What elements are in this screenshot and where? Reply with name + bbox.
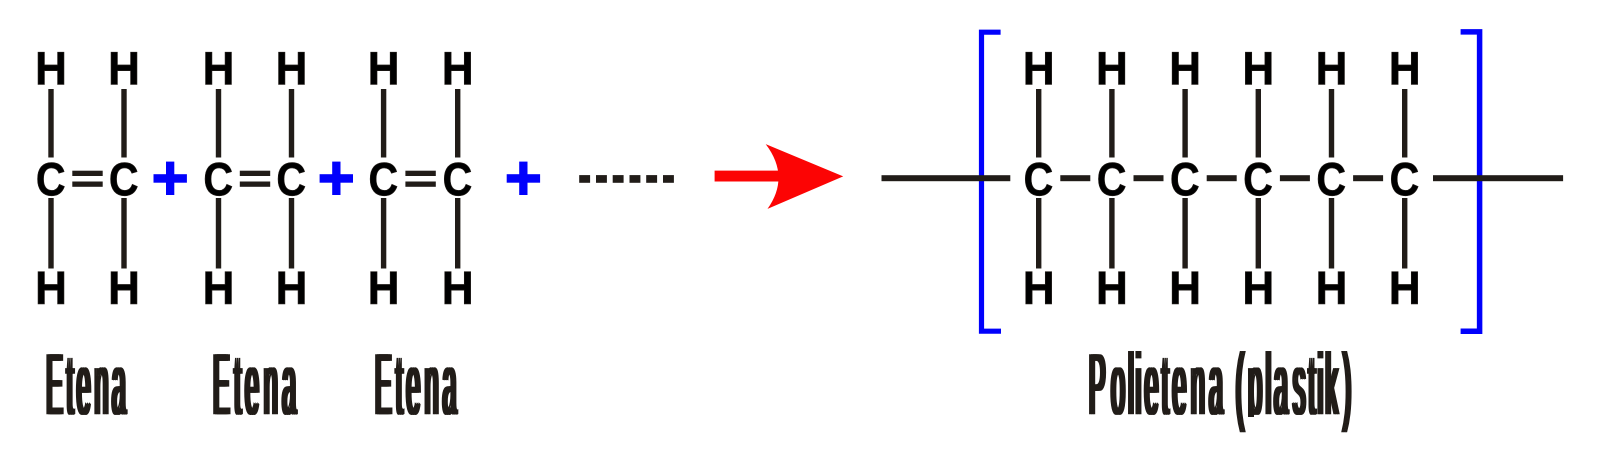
polymer: top bond 5 [1329,89,1334,158]
polymer: C2-C3 bond [1134,175,1164,181]
molecule 2: bond C2-H top [289,89,294,158]
molecule 1: C=C double bond [72,171,102,176]
molecule 1: C1 [38,163,65,196]
ellipsis dashes [579,175,674,183]
molecule 1: bond C1-H top [48,89,53,158]
molecule 2: top-right H [279,52,305,84]
molecule 1: bond C1-H bottom [48,198,53,269]
polymer: top bond 4 [1256,89,1261,158]
polymer: C5-C6 bond [1353,175,1383,181]
label "Etena" 1 [46,354,127,415]
reaction arrow (red) [715,144,844,209]
molecule 3: C=C double bond [405,171,435,176]
polymer: bottom H 6 [1392,272,1418,304]
molecule 2: C=C double bond [240,171,270,176]
polymer: exit line [1433,175,1563,181]
molecule 3: bond C1-H bottom [381,198,386,269]
molecule 3: bond C1-H top [381,89,386,158]
plus sign 1 (blue) [154,162,187,195]
polymer: C5 [1318,163,1345,196]
plus sign 3 (blue) [507,162,540,195]
polymer: bottom bond 3 [1182,198,1187,269]
label "Etena" 3 [375,354,458,415]
polymer: C4 [1245,163,1272,196]
molecule 3: C2 [444,163,471,196]
polymer: bottom H 3 [1172,272,1198,304]
molecule 2: top-left H [206,52,232,84]
polymer: bottom bond 4 [1256,198,1261,269]
molecule 1: bond C2-H top [121,89,126,158]
polymer: C3-C4 bond [1207,175,1237,181]
polymer: top bond 1 [1036,89,1041,158]
polymer: C1 [1025,163,1052,196]
polymer: top H 2 [1099,52,1125,84]
polymer: bottom bond 2 [1109,198,1114,269]
molecule 1: bond C2-H bottom [121,198,126,269]
molecule 2: C1 [205,163,232,196]
polymer: C3 [1172,163,1199,196]
molecule 3: bottom-right H [445,272,471,304]
label "Polietena (plastik)" [1089,351,1352,432]
polymer: bottom bond 6 [1402,198,1407,269]
polymer: C4-C5 bond [1280,175,1310,181]
molecule 3: bond C2-H bottom [455,198,460,269]
polymer: bottom H 5 [1319,272,1345,304]
molecule 2: bottom-left H [206,272,232,304]
polymer: top H 3 [1172,52,1198,84]
molecule 3: C1 [370,163,397,196]
plus sign 2 (blue) [320,162,353,195]
polymer: bottom bond 1 [1036,198,1041,269]
molecule 1: bottom-right H [111,272,137,304]
polymer: top bond 6 [1402,89,1407,158]
molecule 2: bottom-right H [279,272,305,304]
molecule 2: bond C1-H bottom [216,198,221,269]
molecule 3: top-left H [371,52,397,84]
polymer: top H 6 [1392,52,1418,84]
left bracket (blue) [982,32,1002,331]
polymer: bottom H 4 [1245,272,1271,304]
molecule 2: bond C2-H bottom [289,198,294,269]
polymer: C2 [1098,163,1125,196]
polymer: bottom H 1 [1026,272,1052,304]
molecule 2: C2 [278,163,305,196]
polymer: entry line [882,175,1011,181]
polymer: bottom H 2 [1099,272,1125,304]
polymer: top H 4 [1245,52,1271,84]
polymer: bottom bond 5 [1329,198,1334,269]
molecule 1: C2 [111,163,138,196]
molecule 1: bottom-left H [38,272,64,304]
molecule 3: top-right H [445,52,471,84]
molecule 2: bond C1-H top [216,89,221,158]
molecule 1: top-right H [111,52,137,84]
polymer: top H 1 [1026,52,1052,84]
polymer: top bond 2 [1109,89,1114,158]
polymer: top H 5 [1319,52,1345,84]
right bracket (blue) [1461,32,1480,331]
polymer: C6 [1391,163,1418,196]
polymer: C1-C2 bond [1060,175,1090,181]
molecule 3: bond C2-H top [455,89,460,158]
label "Etena" 2 [213,354,298,415]
molecule 3: bottom-left H [371,272,397,304]
molecule 1: top-left H [38,52,64,84]
polymer: top bond 3 [1182,89,1187,158]
